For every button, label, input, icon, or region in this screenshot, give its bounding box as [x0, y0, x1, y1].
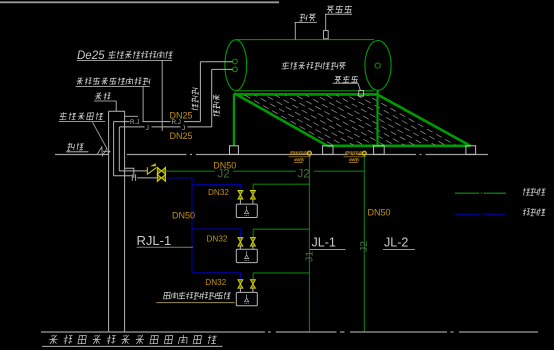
cold water header: [166, 170, 364, 172]
support foot box 2: [323, 146, 333, 155]
label 接每层热水用水点管: [164, 292, 231, 300]
collector left support leg: [233, 94, 235, 146]
support foot box 4: [466, 146, 476, 155]
pipe J vertical in casing: [118, 127, 120, 171]
label 水箱: [299, 14, 315, 22]
pipe RJ riser to tank: [199, 62, 201, 122]
tank bottom line: [236, 90, 374, 92]
collector right slant edge: [377, 94, 470, 145]
rotated label 进水管: [213, 94, 220, 100]
gate valve hot: [157, 174, 161, 181]
svg-text:J: J: [146, 125, 149, 132]
stub to box fixture 3: [252, 288, 254, 292]
check valve: [147, 167, 156, 174]
svg-text:DN32: DN32: [208, 188, 229, 197]
air vent valve: [324, 31, 329, 39]
svg-text:RJL-1: RJL-1: [137, 233, 172, 248]
pipe jog to union: [125, 168, 134, 178]
support foot box 1: [230, 146, 239, 155]
leader 封头: [115, 101, 117, 111]
pipe RJ vertical in casing: [113, 122, 115, 176]
stub to box fixture 2: [239, 246, 241, 249]
svg-text:J2: J2: [298, 168, 310, 180]
air vent leader: [325, 14, 327, 30]
rotated label 出水管: [192, 88, 199, 95]
leader waterproofing: [142, 86, 144, 121]
riser J2: [363, 155, 365, 332]
svg-text:J2: J2: [358, 241, 370, 252]
pipe J riser to tank: [211, 69, 213, 127]
border frame top: [0, 1, 279, 3]
svg-text:DN25: DN25: [170, 110, 193, 120]
pipe elbow to valves upper: [114, 175, 132, 177]
collector bottom edge: [327, 145, 470, 148]
heater symbol 2: [245, 251, 249, 260]
svg-text:J1: J1: [303, 251, 315, 262]
casing annotation 2: [345, 151, 366, 155]
casing left wall: [108, 111, 110, 332]
hot branch 1: [192, 185, 240, 191]
riser J1: [308, 155, 310, 332]
svg-text:DN50: DN50: [172, 211, 195, 221]
legend label 冷水管: [523, 188, 546, 196]
hot riser: [191, 178, 193, 273]
ground line: [41, 331, 538, 333]
tank left end ellipse: [225, 40, 247, 91]
label 封头: [95, 92, 111, 99]
svg-text:DN50: DN50: [213, 161, 236, 171]
pipe RJ horizontal: [114, 121, 201, 123]
stop valve fixture 2 at x 240.4: [238, 238, 243, 242]
stub from cap: [125, 115, 138, 117]
svg-text:DN32: DN32: [205, 278, 226, 287]
legend cold water line: [455, 192, 506, 194]
leader 套管: [93, 122, 108, 149]
svg-text:DN50: DN50: [368, 207, 391, 217]
legend hot water line: [455, 213, 506, 215]
casing end cap: [109, 110, 125, 112]
heater symbol 1: [245, 206, 249, 215]
stub to box fixture 2: [252, 246, 254, 249]
casing right wall: [124, 111, 126, 332]
collector hatch tubes: [245, 95, 333, 145]
stop valve fixture 1 at x 240.4: [238, 191, 243, 195]
tank left nozzle top: [233, 59, 238, 64]
stop valve fixture 1 at x 252.9: [250, 191, 255, 195]
drain valve: [359, 91, 364, 97]
collector left slant edge: [234, 93, 327, 146]
stop valve fixture 3 at x 240.4: [238, 280, 243, 284]
water heater box 2: [236, 249, 257, 262]
svg-text:JL-1: JL-1: [312, 236, 336, 250]
stub to box fixture 1: [239, 199, 241, 204]
stop valve fixture 2 at x 252.9: [250, 238, 255, 242]
collector top edge: [234, 93, 377, 96]
union symbol: [131, 174, 133, 181]
cold branch 1: [253, 184, 309, 190]
tank left nozzle bottom: [233, 67, 238, 72]
stub to box fixture 3: [239, 288, 241, 292]
label 太阳能热水器水箱: [282, 62, 346, 70]
leader 水箱: [294, 22, 296, 39]
cold branch 2: [253, 229, 309, 237]
label 封头密封并做好防水: [77, 77, 151, 85]
hot branch 2: [192, 229, 240, 238]
label 老年养老用房、活动站地面: [49, 335, 216, 344]
tank top line: [236, 39, 374, 41]
svg-text:DN25: DN25: [170, 131, 193, 141]
label 屋面: [67, 143, 84, 150]
stub to box fixture 1: [252, 199, 254, 204]
tank right end ellipse: [365, 41, 391, 91]
stop valve fixture 3 at x 252.9: [250, 280, 255, 284]
water heater box 1: [236, 204, 257, 217]
tank right center boss: [375, 63, 380, 68]
leader De25 pipe: [161, 60, 163, 131]
gate valve cold: [157, 167, 161, 174]
hot branch 3: [192, 273, 240, 280]
pipe to hot valve: [137, 177, 157, 179]
heater symbol 3: [245, 294, 249, 303]
break mark at roof: [98, 147, 111, 156]
cold branch 3: [253, 273, 309, 280]
label 排气门: [327, 6, 352, 14]
collector middle support leg: [376, 91, 378, 146]
pipe J horizontal: [119, 126, 211, 128]
legend label 热水管: [523, 208, 546, 216]
label 太阳能套管: [59, 112, 103, 120]
svg-text:R.J: R.J: [130, 119, 139, 126]
svg-text:DN32: DN32: [207, 235, 228, 244]
hot main: [166, 177, 192, 179]
label 排污门: [335, 76, 358, 83]
pipe elbow to valves lower: [119, 170, 147, 172]
water heater box 3: [236, 292, 257, 305]
support foot box 3: [374, 146, 385, 155]
casing annotation 1: [290, 151, 311, 155]
roof line: [55, 154, 488, 156]
svg-text:JL-2: JL-2: [384, 236, 408, 250]
drain leader: [358, 83, 361, 90]
